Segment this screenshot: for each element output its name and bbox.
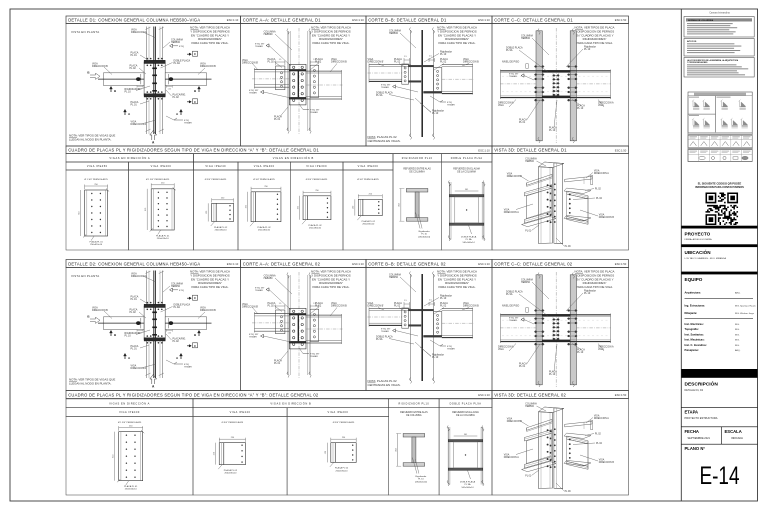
label placa bottom center + leader	[549, 344, 557, 376]
svg-text:250x180x10: 250x180x10	[224, 473, 237, 475]
label direccion A viga left	[498, 344, 516, 352]
svg-text:PL 10: PL 10	[549, 129, 556, 132]
weld flag upper left	[255, 44, 291, 67]
caption + leader	[156, 230, 170, 240]
svg-text:VIGA IPE240: VIGA IPE240	[230, 411, 251, 414]
svg-text:ING. Wialson Jorge: ING. Wialson Jorge	[735, 312, 755, 315]
label viga direccion B 3d right + leader	[580, 455, 614, 464]
label doble placa + leader	[506, 291, 548, 317]
svg-text:ESC:1:10: ESC:1:10	[227, 18, 239, 22]
left beam end plate PL02 + bolts	[402, 308, 409, 328]
svg-text:PARA CADA TIPO DE VIGA.: PARA CADA TIPO DE VIGA.	[439, 41, 476, 45]
label viga direccion A top + leader	[131, 29, 156, 39]
label viga direccion B left	[92, 307, 112, 319]
svg-text:PL 10: PL 10	[418, 479, 424, 481]
section marker B up-left	[110, 331, 117, 337]
svg-text:Ø 1 3/4” PERNOS A325: Ø 1 3/4” PERNOS A325	[146, 178, 170, 181]
svg-text:Ø 3/4” PERNOS A325: Ø 3/4” PERNOS A325	[253, 178, 275, 181]
column flange bands (elevation C-C)	[536, 28, 577, 143]
svg-text:PL 9A: PL 9A	[506, 293, 513, 296]
bolt gauge dashed lines	[502, 76, 609, 92]
svg-text:PL 9A: PL 9A	[506, 49, 513, 52]
rigidizador caption + leaders	[412, 458, 427, 484]
rigidizador I-profile	[406, 189, 428, 222]
svg-text:Ing. Estructuras:: Ing. Estructuras:	[685, 304, 706, 308]
notes box apoyos	[684, 39, 754, 57]
nota placas (top right)	[437, 26, 477, 45]
svg-text:PROYECTO ESTRUCTURA: PROYECTO ESTRUCTURA	[685, 416, 718, 420]
etapa box	[681, 407, 757, 420]
label columna + leader	[163, 283, 183, 293]
dimension lines	[325, 437, 356, 462]
svg-text:ING.: ING.	[735, 329, 740, 331]
svg-text:PL 9A: PL 9A	[376, 94, 383, 97]
svg-text:PARA CADA TIPO DE VIGA.: PARA CADA TIPO DE VIGA.	[576, 41, 613, 45]
plate outline	[219, 443, 245, 465]
svg-text:COLUMNA: COLUMNA	[525, 403, 537, 406]
svg-text:TEMAR: TEMAR	[509, 319, 517, 322]
label placa PL02 left	[394, 302, 405, 311]
dimension lines	[214, 437, 246, 465]
svg-text:PLACA PL 02: PLACA PL 02	[257, 226, 271, 229]
label placa PL02 left + leader	[268, 58, 283, 68]
shelf plate lower right	[564, 215, 591, 220]
label placa PL02 right lower + leader	[166, 90, 186, 99]
svg-text:REFUERZO EN EL ALMA: REFUERZO EN EL ALMA	[452, 411, 479, 414]
dimension lines	[113, 426, 143, 481]
caption + leader	[250, 222, 271, 232]
section box corte C-C D2	[492, 268, 629, 391]
svg-text:PL 02: PL 02	[440, 305, 447, 308]
label viga direccion B 3d upper-left + leader	[507, 173, 529, 182]
svg-text:250x610x10: 250x610x10	[90, 244, 103, 246]
svg-text:CENTRADAS EN VIGAS.: CENTRADAS EN VIGAS.	[368, 139, 401, 143]
title corte A-A D1	[241, 16, 367, 24]
svg-text:Inst. C. Incendios:: Inst. C. Incendios:	[685, 343, 707, 347]
svg-text:PL 02: PL 02	[315, 305, 322, 308]
label viga direccion A 3d right + leader	[586, 415, 609, 424]
text ubicacion	[685, 248, 727, 260]
svg-text:ARQ.: ARQ.	[735, 349, 741, 352]
dimension lines	[297, 190, 331, 220]
svg-text:TEMAR: TEMAR	[310, 111, 318, 114]
svg-text:TEMAR: TEMAR	[447, 104, 455, 107]
svg-text:Ø 3/4” PERNOS A325: Ø 3/4” PERNOS A325	[333, 421, 355, 424]
svg-text:PL 10: PL 10	[577, 351, 584, 354]
dim ticks above beams	[404, 56, 435, 65]
shelf plate lower left	[522, 216, 557, 226]
nota placas centradas (bottom left)	[368, 135, 401, 143]
right beam end plate PL02 + bolts	[310, 65, 319, 97]
svg-text:ESC:1:10: ESC:1:10	[478, 393, 490, 397]
label columna + leader	[389, 274, 416, 293]
label placa PL01 bottom + leader	[274, 351, 288, 365]
svg-text:DIRECCION B: DIRECCION B	[463, 61, 479, 64]
svg-text:PLACA PL 01: PLACA PL 01	[156, 234, 170, 237]
charts box	[688, 92, 752, 162]
svg-text:VIGA IPE200: VIGA IPE200	[358, 165, 379, 168]
column back flange bolts	[554, 428, 556, 468]
title corte B-B D1	[366, 16, 492, 24]
section marker B up-left	[110, 87, 117, 93]
svg-text:DIRECCION B: DIRECCION B	[507, 176, 523, 178]
svg-text:ESC:1:10: ESC:1:10	[478, 148, 490, 152]
caption + leader	[89, 236, 103, 246]
label viga direccion B right	[330, 302, 347, 316]
svg-text:ING.: ING.	[735, 324, 740, 326]
dim ticks above right plate	[310, 59, 319, 64]
svg-text:HEB450: HEB450	[521, 281, 531, 284]
left beam elevation	[368, 308, 411, 327]
svg-text:REFUERZO EN EL ALMA: REFUERZO EN EL ALMA	[453, 168, 480, 171]
caption + leader	[357, 216, 375, 226]
svg-text:Dibujante:: Dibujante:	[685, 311, 698, 315]
label doble placa + leader	[506, 47, 548, 73]
svg-text:PARA CADA TIPO DE VIGA.: PARA CADA TIPO DE VIGA.	[192, 41, 229, 45]
cuadro D2 header rigidizador	[389, 399, 439, 408]
svg-text:C: C	[194, 296, 196, 300]
rigidizador dim 464	[396, 434, 402, 467]
left beam end plate PL02 + bolts	[402, 64, 409, 84]
dim ticks 150 right	[166, 329, 172, 334]
svg-text:HEB500: HEB500	[525, 161, 534, 163]
svg-text:HEB500: HEB500	[389, 32, 399, 35]
svg-text:TEMAR: TEMAR	[184, 122, 192, 125]
svg-text:ESC:1:10: ESC:1:10	[227, 262, 239, 266]
svg-text:ESC:1:50: ESC:1:50	[615, 393, 627, 397]
svg-text:1.5: 1.5	[279, 303, 282, 305]
cuadro D1 header doble placa	[441, 154, 492, 162]
label placa PL10 bottom right + leader	[572, 344, 585, 355]
cuadro D2 header vigas direccion A	[66, 399, 193, 408]
svg-text:Ø 3/4” PERNOS A325: Ø 3/4” PERNOS A325	[205, 178, 227, 181]
svg-text:Rigidizador: Rigidizador	[419, 230, 430, 233]
label viga direccion A bottom + leader	[131, 364, 157, 370]
svg-text:VISTA EN PLANTA: VISTA EN PLANTA	[71, 30, 99, 34]
svg-text:250x610x10: 250x610x10	[157, 238, 170, 240]
svg-text:DIRECCION A: DIRECCION A	[504, 456, 519, 459]
label placa PL01 bottom + leader	[131, 101, 150, 107]
nota placas (top right)	[190, 26, 230, 45]
svg-text:NIVEL DE PISO: NIVEL DE PISO	[502, 61, 519, 64]
svg-text:1.5: 1.5	[404, 300, 407, 302]
right beam elevation (taller)	[442, 64, 474, 95]
cuadro D2 subheader viga IPE200	[287, 408, 389, 417]
cuadro D2 header doble placa	[439, 399, 492, 408]
svg-text:DOBLE PLACA PL9A: DOBLE PLACA PL9A	[451, 157, 483, 160]
svg-text:PL 10: PL 10	[440, 297, 447, 300]
svg-text:DIRECCION B’: DIRECCION B’	[368, 61, 385, 64]
svg-text:1.5: 1.5	[429, 300, 432, 302]
svg-text:DIRECCION B: DIRECCION B	[463, 305, 479, 308]
svg-text:PL 01: PL 01	[525, 475, 532, 477]
svg-text:PL 9A: PL 9A	[174, 62, 181, 65]
svg-text:Ø 3/4” PERNOS A325: Ø 3/4” PERNOS A325	[222, 421, 244, 424]
notes box advertencia	[684, 58, 754, 78]
nota placas centradas (bottom left)	[368, 379, 401, 387]
nota vigas (bottom left)	[69, 134, 115, 142]
label rigidizador bottom + leaders	[415, 342, 444, 359]
dim ticks above beams	[404, 300, 435, 309]
svg-text:DIRECCION B: DIRECCION B	[599, 462, 615, 464]
weld note right	[430, 340, 455, 351]
isometric column front flange	[539, 412, 553, 489]
svg-text:DIRECCION B: DIRECCION B	[92, 309, 108, 312]
nota placas (top right)	[575, 270, 615, 289]
label viga direccion B left	[242, 59, 259, 70]
svg-text:VIGA: VIGA	[504, 209, 510, 212]
weld symbol right upper	[170, 288, 185, 292]
label doble placa + leader	[161, 304, 191, 313]
column HEB500 vertical lines above node (plan)	[147, 27, 163, 135]
right beam elevation (taller)	[442, 308, 474, 339]
section marker A up-left	[124, 354, 131, 360]
svg-text:DE LA COLUMNA: DE LA COLUMNA	[457, 171, 476, 174]
plate outline	[358, 199, 382, 215]
dim ticks above left plate	[276, 59, 285, 65]
isometric deep beam direccion B right	[567, 191, 588, 224]
dim ticks 150 right	[166, 85, 172, 90]
label placa PL02 left + leader	[130, 65, 147, 75]
title corte B-B D2	[366, 260, 492, 268]
svg-text:PL 10: PL 10	[584, 48, 591, 51]
cuadro D2 cell borders	[66, 408, 492, 495]
svg-text:CUADRO DE PLACAS PL Y RIG: CUADRO DE PLACAS PL Y RIGIDIZADORES SEGU…	[68, 148, 319, 153]
svg-text:1.5: 1.5	[279, 59, 282, 61]
svg-text:PL 10: PL 10	[432, 112, 439, 115]
dim ticks 150 left	[137, 85, 143, 90]
svg-text:PL 01: PL 01	[131, 54, 138, 57]
svg-text:TEMAR: TEMAR	[249, 92, 257, 95]
svg-text:Inst. Eléctricas:: Inst. Eléctricas:	[685, 322, 704, 326]
svg-text:PL 02: PL 02	[173, 96, 180, 99]
bolt pairs on column flanges	[534, 65, 578, 101]
bolt column	[277, 194, 278, 220]
right beam end plate PL02 + bolts	[310, 309, 319, 341]
label PL02 right second + leader	[573, 443, 603, 445]
svg-text:ARQ.: ARQ.	[735, 292, 741, 295]
label placa PL01 top + leader	[131, 52, 150, 61]
svg-text:PL 10: PL 10	[421, 234, 427, 236]
svg-text:Ø 1 3/4” PERNOS A325: Ø 1 3/4” PERNOS A325	[84, 178, 108, 181]
column node box (plan)	[144, 62, 165, 96]
right beam end + centerline	[576, 70, 611, 100]
dim ticks above right plate	[310, 303, 319, 308]
svg-text:HEB500: HEB500	[525, 406, 534, 408]
label placa PL02 right	[434, 58, 448, 70]
beam bottom flange line full width	[500, 96, 610, 98]
nivel de piso label + tick	[502, 61, 528, 69]
label viga direccion A bottom + leader	[131, 120, 157, 126]
doble placa dim 561	[455, 189, 479, 191]
doble placa header text	[453, 168, 480, 174]
left beam end plate PL02 + bolts	[276, 310, 285, 334]
svg-text:Arquitectura:: Arquitectura:	[685, 291, 701, 295]
title cuadro placas D2	[66, 391, 492, 399]
label placa PL02 left + leader	[130, 309, 147, 319]
svg-text:HEB450: HEB450	[389, 276, 399, 279]
svg-text:PL 01: PL 01	[519, 121, 526, 124]
svg-text:ING. Spartaco Hauck: ING. Spartaco Hauck	[735, 305, 757, 308]
caption + leader	[330, 462, 349, 472]
svg-text:PL 01: PL 01	[274, 118, 281, 121]
label columna + leader	[264, 31, 292, 51]
svg-text:ETIQ: ETIQ	[179, 46, 184, 48]
svg-text:ESC:1:10: ESC:1:10	[352, 262, 364, 266]
bolt column	[352, 445, 353, 461]
cuadro D1 header rigidizador	[393, 154, 441, 162]
svg-text:PLACA PL 02: PLACA PL 02	[308, 224, 322, 227]
svg-text:1.5: 1.5	[404, 56, 407, 58]
cuadro D1 subheader viga IPE400b	[238, 162, 290, 170]
right beam bolt blob	[169, 77, 174, 81]
QR text	[695, 182, 744, 189]
label viga direccion A 3d left + leader	[504, 449, 533, 459]
isometric deep beam direccion A left	[524, 185, 551, 223]
label doble placa left	[376, 92, 414, 101]
svg-text:ESC:1:50: ESC:1:50	[615, 148, 627, 152]
svg-text:C: C	[194, 100, 196, 104]
svg-text:DETALLE D2: CONEXION GENERA: DETALLE D2: CONEXION GENERAL COLUMNA HEB…	[68, 261, 200, 266]
bottom plate PL01 hatched + bolts	[144, 335, 165, 343]
svg-text:TEMAR: TEMAR	[447, 348, 455, 351]
plano box	[681, 444, 757, 451]
dimension lines	[245, 186, 281, 222]
label PL09 bottom + leader	[556, 483, 571, 493]
svg-text:PL 01: PL 01	[131, 348, 138, 351]
weld flag left	[381, 85, 418, 93]
cuadro D1 header vigas direccion B	[194, 154, 394, 162]
top plate PL01 hatched + bolts	[144, 302, 165, 310]
column HEB450 vertical lines above node (plan)	[147, 271, 163, 379]
svg-text:PARA CADA TIPO DE VIGA.: PARA CADA TIPO DE VIGA.	[439, 285, 476, 289]
svg-text:ESC:1:10: ESC:1:10	[478, 262, 490, 266]
label columna 3d + leader	[525, 403, 546, 412]
cuadro D1 subheader viga IPE400	[129, 162, 194, 170]
svg-text:DE COLUMNA: DE COLUMNA	[409, 171, 425, 174]
label doble placa left	[376, 336, 414, 345]
label viga direccion B right	[330, 58, 347, 72]
svg-text:PL 02: PL 02	[595, 433, 602, 435]
nota placas (top right)	[311, 270, 351, 289]
label placa PL10 bottom right + leader	[572, 100, 585, 111]
svg-text:VIGA IPE200: VIGA IPE200	[328, 411, 349, 414]
plates between flanges	[542, 314, 570, 342]
caption + leader	[302, 220, 322, 230]
label placa PL01 bottom left + leader	[519, 100, 540, 124]
svg-text:561x560x14: 561x560x14	[463, 242, 476, 244]
svg-text:REFUERZO ENTRE ALAS: REFUERZO ENTRE ALAS	[403, 168, 431, 171]
svg-text:PROYECTO: PROYECTO	[685, 232, 711, 237]
svg-text:DIRECCION B: DIRECCION B	[200, 65, 216, 68]
left beam elevation	[368, 64, 411, 83]
plate outline	[303, 196, 331, 220]
svg-text:VIGA IPE400: VIGA IPE400	[119, 411, 140, 414]
beam direccion B left (plan)	[98, 73, 144, 86]
dimension lines	[353, 194, 383, 216]
plate outline	[331, 443, 356, 463]
left beam end + centerline	[500, 70, 537, 100]
isometric thin beam direccion B upper-left	[527, 174, 552, 186]
svg-text:(19x464x10): (19x464x10)	[418, 236, 430, 238]
section arrow A bottom	[150, 131, 157, 145]
svg-text:Y PROFESIONES AFINES: Y PROFESIONES AFINES	[687, 61, 708, 64]
svg-text:NORMAS DE LOS ARRIBA: NORMAS DE LOS ARRIBA	[688, 19, 714, 22]
svg-text:CENTRADAS EN VIGAS.: CENTRADAS EN VIGAS.	[368, 383, 401, 387]
column back flange bolts	[554, 183, 556, 223]
plate outline	[251, 192, 281, 222]
section box detalle D2	[66, 268, 241, 391]
connection plate with bolts (center)	[289, 64, 306, 105]
svg-text:DIRECCION A: DIRECCION A	[594, 172, 609, 175]
label columna + leader	[163, 39, 183, 49]
rigidizador dim 464	[399, 189, 405, 222]
svg-text:DOBLE PLACA PL9A: DOBLE PLACA PL9A	[450, 402, 482, 405]
svg-text:DIRECCION B: DIRECCION B	[331, 61, 347, 64]
svg-text:PL 10: PL 10	[549, 373, 556, 376]
svg-text:1.50: 1.50	[168, 89, 171, 91]
bolt gauge dashed lines	[502, 320, 609, 336]
weld flag upper left	[255, 288, 291, 311]
nota vigas (bottom left)	[69, 378, 115, 386]
section arrow B left	[87, 71, 100, 80]
svg-text:ESCALA: ESCALA	[725, 429, 742, 434]
svg-text:VIGA IPE400: VIGA IPE400	[254, 165, 275, 168]
weld flag left	[381, 329, 418, 337]
notes box normas	[684, 17, 754, 38]
svg-text:PL 9A: PL 9A	[376, 338, 383, 341]
weld note right	[430, 96, 455, 107]
bottom plate PL01 hatched + bolts	[144, 91, 165, 99]
svg-text:DIRECCION A: DIRECCION A	[131, 123, 147, 126]
bar ubicacion	[681, 244, 757, 247]
left beam IPE elevation	[252, 312, 289, 333]
beam top flange line full width	[500, 315, 610, 317]
svg-text:VISTA 3D: DETALLE GENERAL: VISTA 3D: DETALLE GENERAL 02	[494, 392, 566, 397]
svg-text:PL 02: PL 02	[596, 443, 603, 445]
svg-text:PLACA PL 02: PLACA PL 02	[362, 220, 376, 223]
svg-text:DIRECCION B: DIRECCION B	[599, 217, 615, 219]
section box corte A-A D2	[241, 268, 367, 391]
svg-text:PL 01: PL 01	[274, 362, 281, 365]
bolt grid	[91, 193, 101, 233]
svg-text:PL 02: PL 02	[596, 198, 603, 200]
left beam end plate PL02 + bolts	[276, 66, 285, 90]
svg-text:TEMAR: TEMAR	[255, 289, 263, 292]
isometric column front flange	[539, 167, 553, 244]
section box corte B-B D1	[366, 24, 492, 147]
svg-text:CORTE A–A: DETALLE GENERAL: CORTE A–A: DETALLE GENERAL 02	[243, 261, 321, 266]
svg-text:PLACA PL 01: PLACA PL 01	[89, 240, 103, 243]
label placa PL01 bottom left + leader	[519, 344, 540, 368]
svg-text:ESC:1:50: ESC:1:50	[615, 18, 627, 22]
svg-text:INDICADA: INDICADA	[731, 437, 743, 440]
section box detalle D1	[66, 24, 241, 147]
isometric column back flange	[554, 163, 563, 244]
svg-text:CUADRO DE PLACAS PL Y RIG: CUADRO DE PLACAS PL Y RIGIDIZADORES SEGU…	[68, 392, 319, 397]
center bolt columns	[552, 318, 559, 340]
joint plates across column	[409, 65, 442, 93]
right beam IPE elevation (taller)	[306, 314, 343, 344]
svg-text:PL 02: PL 02	[315, 61, 322, 64]
doble placa column elevation	[448, 181, 485, 242]
isometric thin beam direccion B upper-left	[527, 419, 552, 431]
svg-text:HEB500: HEB500	[264, 33, 274, 36]
beam top flange line full width	[500, 71, 610, 73]
bolt grid	[126, 435, 136, 478]
weld flag mid left	[509, 74, 534, 81]
beam direccion A web (dark center line)	[152, 271, 157, 379]
